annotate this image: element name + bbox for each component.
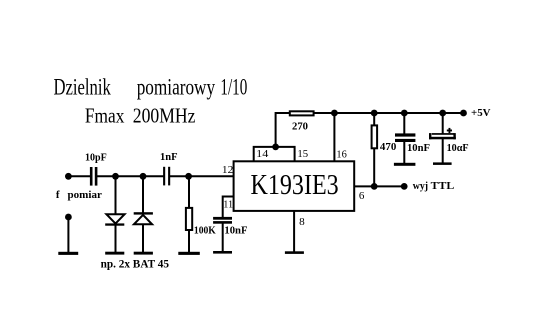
svg-text:+5V: +5V xyxy=(471,107,491,119)
svg-text:6: 6 xyxy=(359,190,365,202)
svg-text:12: 12 xyxy=(222,164,233,176)
svg-text:pomiar: pomiar xyxy=(68,189,103,201)
svg-text:1nF: 1nF xyxy=(160,151,178,163)
svg-text:pomiarowy: pomiarowy xyxy=(137,74,216,99)
svg-text:10pF: 10pF xyxy=(85,152,107,164)
svg-text:Dzielnik: Dzielnik xyxy=(54,74,112,99)
svg-text:1/10: 1/10 xyxy=(220,74,247,99)
svg-text:14: 14 xyxy=(256,148,269,160)
svg-text:16: 16 xyxy=(336,148,347,160)
svg-text:10αF: 10αF xyxy=(447,142,469,154)
svg-text:470: 470 xyxy=(380,141,397,153)
svg-text:Fmax: Fmax xyxy=(85,103,125,127)
svg-text:8: 8 xyxy=(299,216,305,228)
svg-text:270: 270 xyxy=(292,120,308,132)
svg-text:wyj: wyj xyxy=(413,181,428,192)
svg-text:11: 11 xyxy=(223,198,233,210)
svg-text:f: f xyxy=(56,189,60,201)
svg-text:200MHz: 200MHz xyxy=(133,103,196,127)
svg-text:15: 15 xyxy=(297,148,308,160)
svg-text:10nF: 10nF xyxy=(407,142,430,154)
svg-text:np. 2x BAT 45: np. 2x BAT 45 xyxy=(101,259,170,271)
svg-text:TTL: TTL xyxy=(431,181,455,192)
svg-text:K193IE3: K193IE3 xyxy=(251,170,339,201)
svg-text:10nF: 10nF xyxy=(224,225,247,237)
svg-text:100K: 100K xyxy=(194,225,216,237)
